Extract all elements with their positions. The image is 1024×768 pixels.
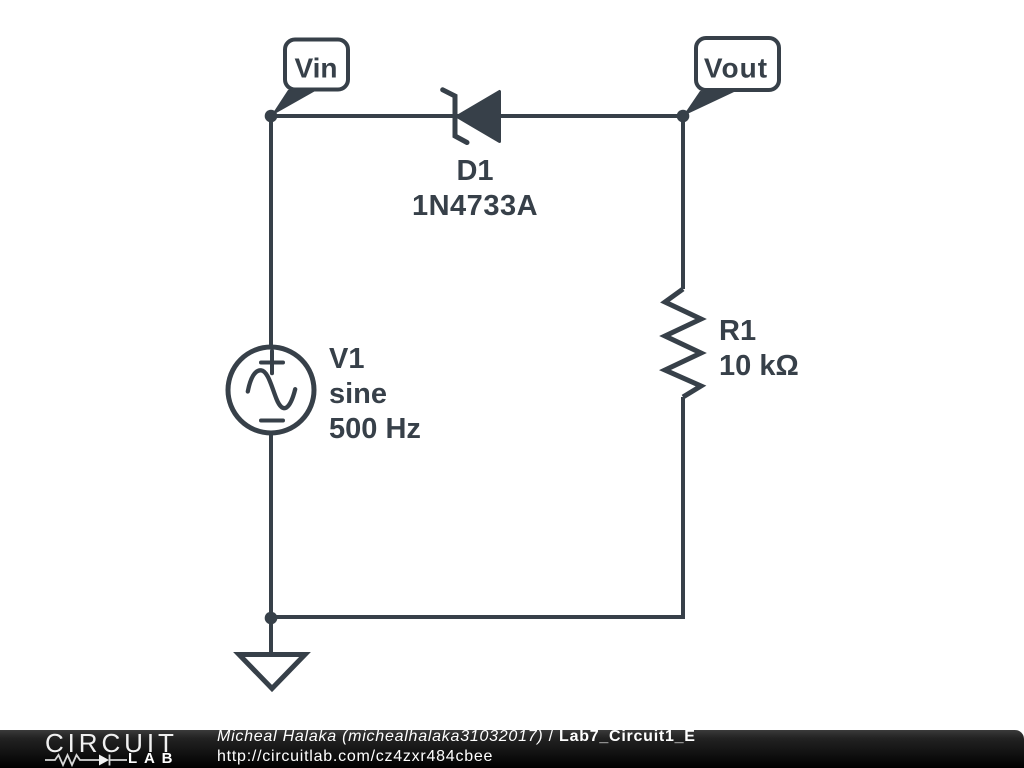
svg-text:Vin: Vin — [294, 53, 337, 84]
svg-text:D1: D1 — [456, 155, 493, 187]
svg-text:10 kΩ: 10 kΩ — [719, 350, 799, 382]
svg-text:Vout: Vout — [704, 53, 768, 84]
svg-text:500 Hz: 500 Hz — [329, 413, 421, 445]
svg-text:sine: sine — [329, 378, 387, 410]
svg-text:V1: V1 — [329, 343, 364, 375]
svg-text:R1: R1 — [719, 315, 756, 347]
svg-text:1N4733A: 1N4733A — [412, 190, 538, 222]
